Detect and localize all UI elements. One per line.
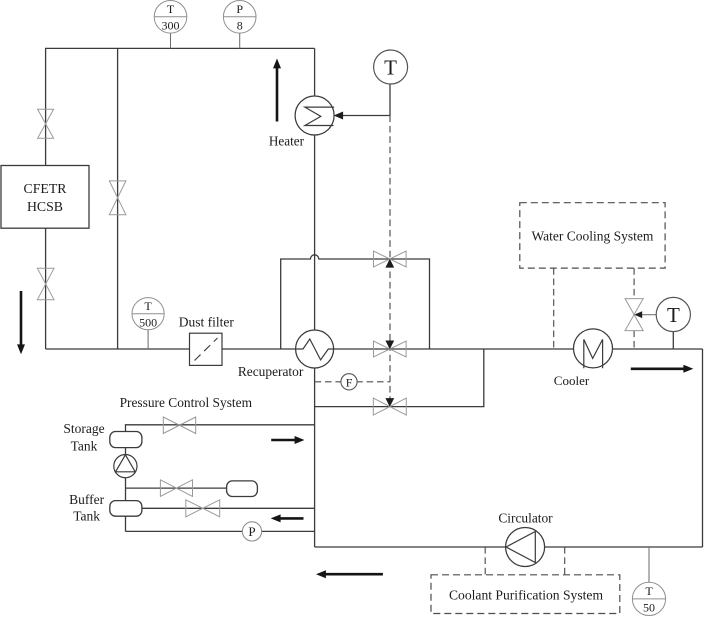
svg-text:Storage: Storage [63, 421, 104, 436]
svg-text:300: 300 [162, 18, 180, 32]
svg-text:T: T [384, 55, 397, 79]
svg-text:50: 50 [643, 600, 655, 614]
svg-text:Heater: Heater [269, 133, 305, 148]
svg-text:Tank: Tank [73, 508, 100, 523]
svg-text:CFETR: CFETR [24, 181, 68, 196]
svg-text:T: T [645, 584, 653, 598]
svg-text:8: 8 [237, 18, 243, 32]
svg-text:Coolant Purification System: Coolant Purification System [449, 588, 603, 603]
svg-text:Circulator: Circulator [498, 510, 553, 525]
svg-text:Buffer: Buffer [69, 492, 104, 507]
svg-text:T: T [667, 303, 680, 327]
svg-text:Water Cooling System: Water Cooling System [531, 228, 653, 243]
svg-text:T: T [167, 2, 175, 16]
svg-text:F: F [346, 375, 353, 389]
svg-text:P: P [236, 2, 243, 16]
svg-text:T: T [144, 299, 152, 313]
svg-text:HCSB: HCSB [27, 199, 63, 214]
svg-text:Cooler: Cooler [554, 373, 590, 388]
svg-text:Pressure Control System: Pressure Control System [120, 395, 253, 410]
svg-text:Recuperator: Recuperator [238, 364, 304, 379]
svg-text:Dust filter: Dust filter [179, 315, 235, 330]
svg-text:P: P [248, 524, 255, 539]
svg-text:Tank: Tank [71, 438, 98, 453]
svg-text:500: 500 [139, 315, 157, 329]
